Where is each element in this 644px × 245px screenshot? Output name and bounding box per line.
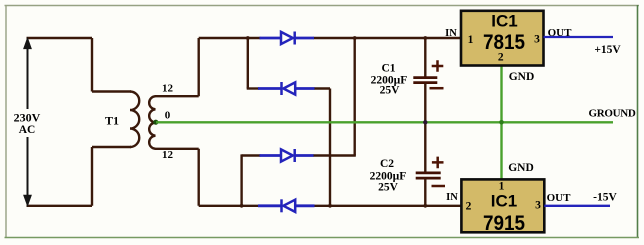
svg-text:12: 12	[162, 83, 174, 95]
wire: D2 line left stub	[247, 87, 259, 89]
svg-text:IN: IN	[446, 192, 458, 203]
svg-text:1: 1	[468, 34, 474, 46]
svg-text:0: 0	[165, 110, 171, 122]
wire: D3 line right dark segment	[313, 154, 356, 156]
wire: C1 bottom lead to ground	[424, 83, 426, 122]
wire: AC source bottom to primary bottom	[27, 147, 132, 206]
node junction GND on ground line	[499, 120, 504, 125]
wire: C1 top lead	[424, 38, 426, 77]
svg-text:12: 12	[162, 149, 174, 161]
wire: bottom rail left segment	[199, 205, 261, 207]
wire: -15V output (blue)	[544, 205, 610, 207]
wire: D3 line left stub	[242, 154, 261, 156]
wire: C2 top lead from ground	[424, 122, 426, 172]
svg-text:AC: AC	[19, 124, 36, 136]
source arrow 230V AC	[24, 38, 32, 207]
wire: secondary top tap lead	[155, 38, 199, 96]
wire: +15V output (blue)	[544, 36, 614, 38]
capacitor C2 plates	[416, 173, 441, 178]
svg-text:IC1: IC1	[491, 12, 517, 31]
svg-text:7915: 7915	[483, 212, 525, 235]
wire: D3 output riser to top rail	[354, 38, 356, 156]
svg-text:IC1: IC1	[491, 192, 517, 211]
regulator IC1 7915 box	[461, 179, 544, 232]
svg-text:7815: 7815	[483, 31, 525, 54]
svg-text:2: 2	[466, 201, 472, 213]
node junction on top rail at C1	[423, 36, 427, 40]
C2 minus sign	[432, 185, 446, 188]
svg-text:25V: 25V	[378, 182, 399, 194]
diode D2	[282, 82, 296, 95]
svg-text:3: 3	[534, 33, 540, 45]
svg-text:T1: T1	[105, 114, 119, 128]
svg-text:C1: C1	[381, 63, 395, 75]
C2 plus sign	[432, 157, 444, 169]
svg-text:OUT: OUT	[548, 27, 573, 39]
transformer T1 primary winding	[130, 92, 139, 148]
border frame left	[5, 5, 7, 238]
border frame right	[637, 5, 639, 238]
capacitor C1 plates	[413, 78, 437, 83]
diode D3	[281, 149, 295, 162]
svg-text:GND: GND	[508, 162, 534, 174]
svg-text:3: 3	[535, 200, 541, 212]
diode D3 leads	[260, 154, 314, 157]
wire: D2 output to bottom rail	[314, 89, 330, 206]
svg-text:GROUND: GROUND	[588, 108, 635, 120]
border frame top	[5, 5, 640, 7]
ground line (green)	[156, 121, 613, 123]
node junction on top rail at D2 branch	[246, 36, 250, 40]
svg-text:OUT: OUT	[547, 192, 572, 204]
node junction of D3 branch on bottom rail	[240, 204, 244, 208]
wire: C2 bottom lead	[424, 179, 426, 206]
node: center tap dot	[153, 120, 158, 125]
node junction dot C1/C2 on ground	[423, 120, 427, 124]
wire: top rail right segment	[314, 37, 462, 39]
wire: secondary bottom tap lead	[155, 149, 199, 206]
diode D4 leads	[258, 204, 315, 207]
svg-text:25V: 25V	[380, 85, 401, 97]
node junction on top rail at D3 riser	[353, 36, 357, 40]
diode D1 leads	[260, 37, 315, 40]
wire: branch down to D2	[247, 38, 249, 89]
transformer T1 secondary winding	[149, 96, 155, 149]
svg-text:-15V: -15V	[593, 192, 617, 204]
wire: top rail left segment	[199, 37, 261, 39]
svg-text:2: 2	[498, 52, 504, 64]
wire: D3 branch down to bottom rail	[240, 154, 242, 205]
node junction on bottom rail at C2	[423, 204, 427, 208]
svg-text:+15V: +15V	[594, 44, 621, 56]
op regulator IC1 7815 box	[461, 11, 544, 66]
node junction of D2 drop on bottom rail	[328, 204, 332, 208]
svg-text:C2: C2	[380, 158, 394, 170]
wire: AC source top to primary top	[27, 38, 132, 92]
diode D2 leads	[258, 87, 315, 90]
C1 minus sign	[430, 87, 444, 90]
wire: bottom rail right segment	[314, 205, 463, 207]
C1 plus sign	[432, 60, 444, 72]
svg-text:230V: 230V	[14, 111, 41, 125]
diode D1	[281, 32, 295, 45]
svg-text:IN: IN	[445, 28, 457, 39]
svg-text:GND: GND	[509, 71, 535, 83]
diode D4	[282, 199, 296, 212]
wire: regulator GND vertical (green)	[500, 65, 502, 180]
border frame bottom	[5, 237, 640, 239]
